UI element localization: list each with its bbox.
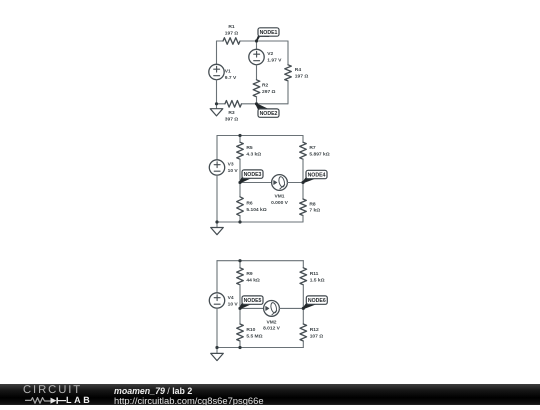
svg-text:NODE3: NODE3: [244, 172, 262, 178]
junction bottom-left circuit 2: [215, 220, 218, 223]
logo resistor zigzag: [26, 397, 51, 403]
footer title text: [114, 386, 192, 396]
wire R6 to bottom rail: [239, 216, 241, 222]
svg-text:NODE1: NODE1: [260, 30, 278, 36]
wire branch top lead to R5: [239, 136, 241, 143]
wire right vertical top lead to R7: [302, 136, 304, 143]
svg-text:10 V: 10 V: [228, 301, 239, 307]
wire right vertical top lead to R11: [302, 261, 304, 268]
voltage source V1: [209, 64, 237, 80]
wire NODE6 junction to R12: [302, 308, 304, 324]
svg-text:NODE6: NODE6: [308, 298, 326, 304]
wire bottom rail circuit 3: [217, 347, 303, 349]
svg-text:0.000 V: 0.000 V: [271, 200, 289, 206]
wire R2 to NODE2 junction: [256, 97, 258, 104]
junction branch top circuit 2: [238, 134, 241, 137]
CircuitLab logo wordmark CIRCUIT: [23, 384, 82, 396]
svg-text:197 Ω: 197 Ω: [225, 30, 239, 36]
junction branch bottom circuit 3: [238, 346, 241, 349]
wire bottom rail circuit 2: [217, 221, 303, 223]
wire NODE1 junction to top-right corner: [257, 40, 289, 42]
wire top-left segment (V1 top to R1): [217, 40, 224, 42]
wire branch top lead to R9: [239, 261, 241, 268]
svg-text:R6: R6: [246, 200, 253, 206]
wire V1 bottom to bottom-left corner: [216, 80, 218, 104]
svg-text:8.012 V: 8.012 V: [263, 326, 281, 332]
junction branch top circuit 3: [238, 259, 241, 262]
voltmeter VM1: [271, 175, 289, 206]
footer url text: [114, 395, 264, 406]
wire left vertical to V4: [216, 261, 218, 293]
voltage source V4: [209, 293, 238, 308]
svg-text:NODE2: NODE2: [260, 111, 278, 117]
svg-text:R1: R1: [228, 24, 235, 30]
svg-text:4.3 kΩ: 4.3 kΩ: [246, 151, 261, 157]
node NODE5: [240, 296, 263, 309]
wire R5 to NODE3 junction: [239, 159, 241, 182]
logo diode bar: [56, 397, 58, 403]
wire NODE5 to voltmeter VM2: [240, 307, 264, 309]
svg-text:1.5 kΩ: 1.5 kΩ: [310, 277, 325, 283]
svg-text:297 Ω: 297 Ω: [262, 89, 276, 95]
svg-text:7 kΩ: 7 kΩ: [309, 208, 320, 214]
wire top rail circuit 2: [217, 135, 303, 137]
svg-text:R4: R4: [295, 67, 302, 73]
wire NODE3 junction to R6: [239, 183, 241, 197]
svg-text:V1: V1: [225, 68, 231, 74]
svg-text:V3: V3: [228, 161, 234, 167]
ground (circuit 3): [211, 348, 224, 361]
resistor R7: [300, 142, 330, 159]
junction bottom-left circuit 3: [215, 346, 218, 349]
node NODE1: [257, 28, 280, 41]
wire R10 to bottom rail: [239, 341, 241, 348]
wire VM1 to NODE4 junction: [287, 182, 303, 184]
junction NODE2 anchor: [255, 102, 258, 105]
svg-text:44 kΩ: 44 kΩ: [246, 277, 260, 283]
wire left vertical to V3: [216, 136, 218, 160]
junction NODE5 anchor: [238, 307, 241, 310]
resistor R8: [300, 199, 320, 216]
wire NODE5 junction to R10: [239, 308, 241, 324]
svg-text:397 Ω: 397 Ω: [225, 116, 239, 122]
voltmeter VM2: [263, 301, 281, 332]
svg-text:NODE4: NODE4: [308, 172, 326, 178]
CircuitLab logo resistor-diode symbol and LAB: [24, 397, 94, 405]
wire V2 top lead: [256, 41, 258, 49]
svg-text:197 Ω: 197 Ω: [295, 73, 309, 79]
resistor R1: [223, 24, 240, 45]
resistor R9: [237, 268, 260, 285]
voltage source V2: [249, 49, 282, 64]
resistor R10: [237, 324, 263, 341]
wire V4 bottom to bottom rail: [216, 308, 218, 347]
svg-text:R10: R10: [246, 327, 255, 333]
junction NODE4 anchor: [301, 181, 304, 184]
svg-text:R5: R5: [246, 145, 253, 151]
junction NODE1 anchor: [255, 39, 258, 42]
resistor R4: [285, 65, 309, 81]
wire R12 to bottom rail: [302, 341, 304, 348]
wire right vertical top (corner to R4): [287, 41, 289, 65]
junction NODE6 anchor: [302, 307, 305, 310]
svg-text:R7: R7: [309, 145, 316, 151]
resistor R12: [300, 324, 323, 341]
wire R9 to NODE5 junction: [239, 285, 241, 309]
svg-text:V2: V2: [267, 51, 273, 57]
svg-text:V4: V4: [228, 295, 234, 301]
node NODE6: [303, 296, 327, 309]
svg-text:1.97 V: 1.97 V: [267, 57, 282, 63]
wire R7 to NODE4 junction: [302, 159, 304, 182]
svg-text:5.104 kΩ: 5.104 kΩ: [246, 207, 266, 213]
ground (circuit 2): [211, 222, 224, 235]
svg-text:10 V: 10 V: [228, 168, 239, 174]
svg-text:5.5 MΩ: 5.5 MΩ: [246, 334, 262, 340]
resistor R3: [225, 101, 242, 123]
wire bottom-left corner to R3: [217, 103, 226, 105]
node NODE2: [256, 104, 279, 118]
svg-text:9.7 V: 9.7 V: [225, 75, 237, 81]
wire V2 bottom to R2: [256, 65, 258, 80]
resistor R6: [237, 197, 267, 216]
wire top rail circuit 3: [217, 260, 303, 262]
node NODE3: [240, 170, 263, 183]
ground (circuit 1): [210, 104, 223, 116]
wire NODE2 junction to bottom-right corner: [257, 103, 289, 105]
svg-text:R11: R11: [310, 271, 319, 277]
junction bottom-left corner circuit 1: [215, 102, 218, 105]
voltage source V3: [209, 160, 238, 175]
resistor R2: [253, 80, 275, 97]
junction NODE3 anchor: [238, 181, 241, 184]
svg-text:NODE5: NODE5: [244, 298, 262, 304]
node NODE4: [303, 170, 327, 182]
wire R3 to NODE2 junction: [242, 103, 257, 105]
wire R11 to NODE6 junction: [302, 285, 304, 309]
svg-text:107 Ω: 107 Ω: [310, 334, 324, 340]
wire R1 to NODE1 junction: [240, 40, 257, 42]
wire NODE4 junction to R8: [302, 183, 304, 200]
junction branch bottom circuit 2: [238, 220, 241, 223]
svg-text:R8: R8: [309, 201, 316, 207]
logo diode triangle: [51, 397, 57, 403]
wire R8 to bottom rail: [302, 216, 304, 223]
svg-text:5.897 kΩ: 5.897 kΩ: [309, 151, 329, 157]
svg-text:R3: R3: [228, 110, 235, 116]
wire V3 bottom to bottom rail: [216, 175, 218, 222]
resistor R5: [237, 142, 262, 159]
svg-text:VM1: VM1: [274, 193, 284, 199]
footer bar: [0, 384, 540, 405]
wire NODE3 to voltmeter VM1: [240, 182, 272, 184]
svg-text:R9: R9: [246, 271, 253, 277]
resistor R11: [300, 268, 325, 285]
svg-text:VM2: VM2: [266, 319, 276, 325]
svg-text:R2: R2: [262, 82, 269, 88]
svg-text:R12: R12: [310, 327, 319, 333]
wire VM2 to NODE6 junction: [279, 307, 303, 309]
wire right vertical bottom (R4 to corner): [287, 81, 289, 104]
wire left vertical (top to V1): [216, 41, 218, 64]
